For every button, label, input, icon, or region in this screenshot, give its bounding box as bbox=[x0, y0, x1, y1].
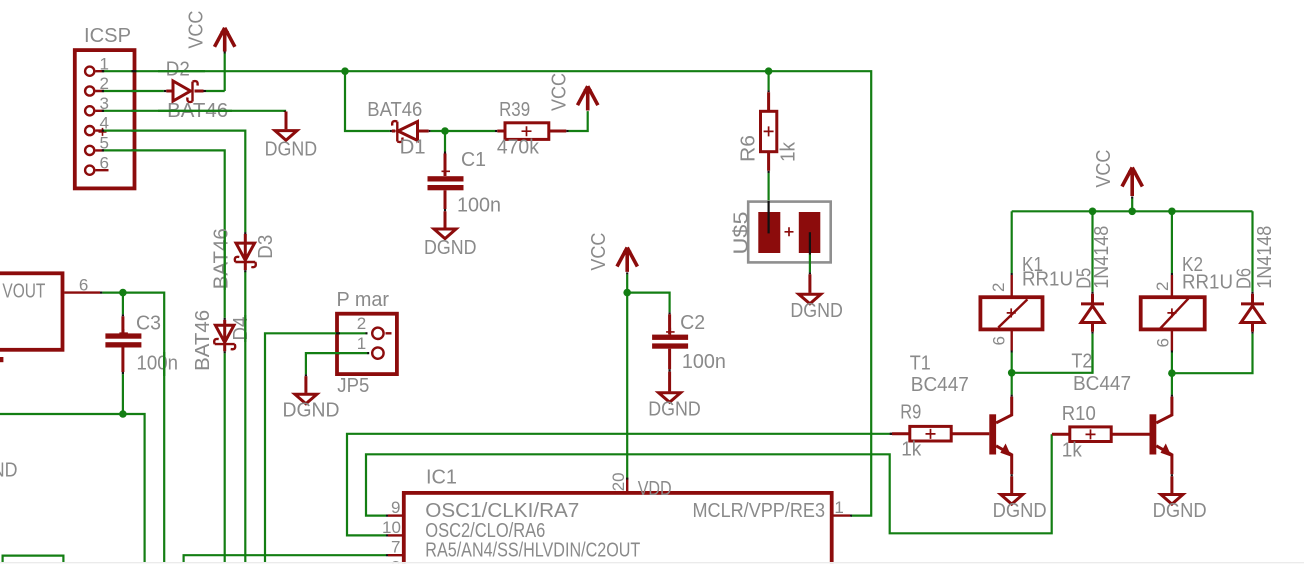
pin tick bbox=[1131, 197, 1133, 199]
power symbol VCC arrow above C2 bbox=[617, 248, 637, 272]
part IC1 box bbox=[404, 493, 832, 565]
wire VCC to D2 cathode bbox=[224, 54, 226, 92]
capacitor C1 bbox=[428, 154, 464, 210]
svg-text:ICSP: ICSP bbox=[84, 25, 131, 47]
wire JP5 pin2 riser bbox=[265, 333, 366, 562]
JP5 pin circle 2 bbox=[372, 328, 383, 339]
svg-text:VDD: VDD bbox=[638, 478, 672, 500]
relay K1 coil bbox=[980, 275, 1042, 351]
pin tick bbox=[390, 130, 392, 132]
JP5 pin circle 1 bbox=[372, 347, 383, 358]
svg-text:BC447: BC447 bbox=[1073, 373, 1131, 395]
svg-text:D4: D4 bbox=[230, 317, 252, 341]
wire pin4 down schematic bbox=[104, 131, 245, 233]
pin tick bbox=[1171, 273, 1173, 275]
svg-text:BAT46: BAT46 bbox=[211, 228, 233, 289]
ground DGND under C1 bbox=[434, 211, 456, 238]
JP5 origin dash bbox=[386, 332, 392, 334]
svg-text:RA5/AN4/SS/HLVDIN/C2OUT: RA5/AN4/SS/HLVDIN/C2OUT bbox=[425, 540, 640, 562]
wire C3 to DGND rail bbox=[0, 374, 145, 562]
svg-text:10: 10 bbox=[382, 518, 401, 537]
pin tick bbox=[386, 434, 1052, 515]
junction D1/C1/R39 bbox=[441, 127, 449, 135]
svg-text:C3: C3 bbox=[136, 312, 161, 334]
svg-text:OSC1/CLKI/RA7: OSC1/CLKI/RA7 bbox=[425, 500, 579, 522]
ICSP pin circle 4 bbox=[85, 126, 94, 135]
resistor R39 bbox=[497, 123, 566, 140]
junction VCC/C2 bbox=[623, 289, 631, 297]
schematic canvas bottom boundary bbox=[0, 562, 1304, 563]
pin tick bbox=[1091, 292, 1093, 334]
svg-text:OSC2/CLO/RA6: OSC2/CLO/RA6 bbox=[425, 520, 545, 542]
svg-text:1N4148: 1N4148 bbox=[1091, 226, 1113, 289]
svg-text:2: 2 bbox=[989, 283, 1008, 292]
pin tick bbox=[767, 90, 769, 92]
pin 6 stub bbox=[64, 291, 100, 293]
svg-text:2: 2 bbox=[357, 314, 366, 333]
part VOUT box bbox=[0, 273, 63, 350]
wire pin9 to R10 run bbox=[366, 434, 1052, 533]
wire pin2 to D2 bbox=[104, 90, 164, 92]
ICSP pin circle 2 bbox=[85, 86, 94, 95]
wire overdraw: C3 rail riser over 100n label bbox=[163, 352, 165, 376]
pin tick bbox=[668, 312, 670, 314]
pin tick bbox=[1251, 292, 1253, 334]
ground DGND symbol bbox=[275, 112, 297, 141]
transistor T2 bbox=[1150, 397, 1172, 475]
wire pin5 down schematic bbox=[104, 150, 225, 318]
pin tick bbox=[566, 130, 568, 132]
resistor R9 bbox=[892, 426, 989, 441]
wire pin1 top bus bbox=[104, 71, 871, 515]
relay K2 coil bbox=[1141, 275, 1205, 351]
junction VCC bbox=[1128, 208, 1136, 216]
ground DGND under U$5 bbox=[799, 274, 821, 304]
pin tick bbox=[1171, 474, 1173, 476]
svg-text:DGND: DGND bbox=[1153, 500, 1207, 522]
svg-text:DGND: DGND bbox=[0, 460, 18, 482]
ICSP pin circle 3 bbox=[85, 106, 94, 115]
part U$5 jumper pads bbox=[748, 201, 831, 262]
resistor R10 bbox=[1052, 427, 1150, 442]
pin tick bbox=[100, 292, 102, 294]
wire overdraw: pin5 riser over BAT46 label bbox=[224, 231, 226, 290]
diode D6 bbox=[1241, 294, 1264, 332]
svg-text:VCC: VCC bbox=[1093, 150, 1115, 188]
pin 20 VDD stub bbox=[626, 478, 628, 493]
svg-text:RR1U: RR1U bbox=[1182, 271, 1233, 293]
pin tick bbox=[890, 433, 892, 435]
ICSP pin circle 5 bbox=[85, 146, 94, 155]
svg-text:P mar: P mar bbox=[337, 289, 390, 311]
svg-text:VCC: VCC bbox=[588, 233, 610, 271]
pin tick bbox=[668, 369, 670, 371]
capacitor C3 bbox=[105, 316, 141, 372]
pin tick bbox=[1171, 351, 1173, 353]
svg-text:BAT46: BAT46 bbox=[192, 310, 214, 371]
pin tick bbox=[224, 52, 226, 54]
junction at R6 branch bbox=[765, 67, 773, 75]
wire pin7 run bbox=[184, 555, 386, 562]
svg-text:20: 20 bbox=[609, 472, 628, 491]
wire D1 to node bbox=[431, 130, 495, 132]
wire bus to K2 bbox=[1171, 211, 1173, 273]
svg-text:6: 6 bbox=[100, 153, 109, 172]
ICSP pin circle 1 bbox=[85, 67, 94, 76]
svg-text:R10: R10 bbox=[1062, 403, 1096, 425]
ground DGND under T1 bbox=[1001, 476, 1023, 504]
pin tick bbox=[444, 209, 446, 211]
diode D2 bbox=[166, 81, 203, 102]
wire R6 to U$5 bbox=[767, 173, 769, 201]
wire overdraw: pin3 wire over BAT46 label bbox=[158, 110, 232, 112]
power symbol VCC arrow at R39 bbox=[578, 86, 598, 110]
diode D4 bbox=[214, 320, 235, 351]
svg-text:DGND: DGND bbox=[283, 399, 340, 421]
svg-text:BAT46: BAT46 bbox=[367, 99, 422, 121]
pin tick bbox=[285, 111, 286, 112]
svg-text:9: 9 bbox=[391, 498, 400, 517]
svg-text:100n: 100n bbox=[457, 195, 501, 217]
ICSP pin circle 6 bbox=[85, 166, 94, 175]
wire overdraw: pin4 riser over D4 label bbox=[244, 315, 246, 342]
svg-text:MCLR/VPP/RE3: MCLR/VPP/RE3 bbox=[693, 500, 826, 522]
pin tick bbox=[244, 270, 246, 272]
junction K2/T2 bbox=[1168, 369, 1176, 377]
wire bus to K1 bbox=[1011, 211, 1013, 273]
diode D5 bbox=[1081, 294, 1104, 332]
pin 1 MCLR stub bbox=[832, 514, 850, 516]
pin tick bbox=[1011, 474, 1013, 476]
svg-text:IC1: IC1 bbox=[426, 467, 457, 489]
black cross ticks on ICSP border bbox=[102, 71, 137, 150]
wire VCC bus bbox=[1012, 199, 1253, 212]
pin tick bbox=[444, 152, 446, 154]
transistor T1 bbox=[989, 397, 1011, 475]
svg-text:VOUT: VOUT bbox=[2, 280, 45, 302]
diode D1 (BAT46) bbox=[392, 121, 429, 142]
pin 7 stub bbox=[388, 554, 404, 556]
pin tick bbox=[809, 272, 811, 274]
wire K2 to T2 collector node bbox=[1172, 334, 1253, 373]
wire pin3 bbox=[104, 110, 286, 112]
junction D5 top bbox=[1089, 208, 1097, 216]
junction K1/T1 bbox=[1008, 369, 1016, 377]
svg-text:6: 6 bbox=[990, 336, 1009, 345]
svg-text:1k: 1k bbox=[778, 141, 800, 162]
svg-text:2: 2 bbox=[1153, 282, 1172, 291]
svg-text:1: 1 bbox=[834, 498, 843, 517]
junction VOUT/C3 bbox=[119, 289, 127, 297]
pin 10 stub bbox=[388, 534, 404, 536]
svg-text:1N4148: 1N4148 bbox=[1254, 226, 1276, 289]
pin tick bbox=[386, 554, 388, 556]
junction at D1 branch bbox=[341, 67, 349, 75]
svg-text:VCC: VCC bbox=[185, 11, 207, 49]
svg-text:R6: R6 bbox=[738, 135, 760, 162]
stray pin mark at left edge bbox=[0, 357, 3, 362]
svg-text:100n: 100n bbox=[682, 351, 726, 373]
pin tick bbox=[1171, 395, 1173, 397]
pin tick bbox=[164, 90, 167, 92]
wire D2 to VCC riser bbox=[206, 90, 225, 92]
svg-text:R39: R39 bbox=[499, 99, 530, 121]
wire node to C3 bbox=[122, 293, 124, 315]
svg-text:7: 7 bbox=[391, 538, 400, 557]
svg-text:VCC: VCC bbox=[549, 73, 571, 111]
svg-text:D1: D1 bbox=[400, 137, 426, 159]
ground DGND under T2 bbox=[1161, 476, 1183, 504]
ground DGND under JP5 bbox=[295, 376, 317, 404]
pin tick bbox=[306, 353, 369, 376]
power symbol VCC arrow bbox=[215, 28, 235, 52]
svg-text:R9: R9 bbox=[900, 402, 921, 424]
wire node to T1 collector bbox=[1011, 373, 1013, 395]
wire node to C1 bbox=[444, 131, 446, 152]
svg-text:470k: 470k bbox=[497, 137, 540, 159]
svg-text:RR1U: RR1U bbox=[1022, 269, 1073, 291]
svg-text:DGND: DGND bbox=[424, 237, 477, 259]
wire top bus to D1 bbox=[345, 71, 390, 131]
pin tick bbox=[1011, 395, 1013, 397]
pin tick bbox=[244, 232, 246, 234]
pin tick bbox=[366, 332, 368, 334]
svg-text:T2: T2 bbox=[1071, 351, 1092, 373]
svg-text:C2: C2 bbox=[680, 312, 705, 334]
diode D3 bbox=[235, 234, 256, 270]
power symbol VCC arrow at relays bbox=[1122, 168, 1142, 197]
svg-text:100n: 100n bbox=[137, 352, 179, 374]
junction K2 top bbox=[1168, 208, 1176, 216]
svg-text:D3: D3 bbox=[255, 235, 277, 259]
pin tick bbox=[1011, 273, 1013, 275]
wire junction to C2 bbox=[627, 293, 669, 313]
wire R39 to VCC bbox=[569, 111, 588, 131]
junction C3/rail bbox=[119, 410, 127, 418]
svg-text:BC447: BC447 bbox=[911, 374, 969, 396]
pin tick bbox=[122, 314, 124, 316]
wire VOUT pin6 to C3 node bbox=[102, 293, 164, 562]
connector ICSP box bbox=[75, 50, 135, 188]
wire pin4 lower segment bbox=[244, 271, 246, 562]
pin tick bbox=[626, 478, 628, 480]
pin tick bbox=[386, 434, 892, 536]
connector JP5 box bbox=[337, 314, 397, 374]
pin tick bbox=[224, 351, 226, 353]
svg-text:1k: 1k bbox=[901, 438, 922, 460]
resistor R6 bbox=[761, 92, 777, 171]
svg-text:6: 6 bbox=[1153, 338, 1172, 347]
wire pin5 lower segment bbox=[224, 353, 226, 562]
pin 9 stub bbox=[388, 514, 404, 516]
pin tick bbox=[224, 318, 226, 320]
black cross ticks on JP5 border bbox=[336, 333, 340, 353]
svg-text:DGND: DGND bbox=[648, 399, 701, 421]
wire overdraw: top bus over label D2 bbox=[158, 70, 205, 72]
pin tick bbox=[122, 372, 124, 374]
svg-text:1k: 1k bbox=[1062, 439, 1083, 461]
capacitor C2 bbox=[652, 314, 688, 369]
svg-text:JP5: JP5 bbox=[337, 375, 369, 397]
svg-text:DGND: DGND bbox=[265, 139, 318, 161]
wire K1 to T1 collector node bbox=[1012, 334, 1093, 373]
wire VCC to junction to VDD bbox=[626, 274, 628, 477]
pin tick bbox=[495, 130, 497, 132]
wire bus to D5 bbox=[1091, 211, 1093, 291]
pin tick bbox=[204, 90, 207, 92]
wire node to T2 collector bbox=[1171, 373, 1173, 394]
pin tick bbox=[767, 171, 769, 173]
wire overdraw: D5 branch over T2 label bbox=[1091, 350, 1093, 373]
svg-text:1: 1 bbox=[357, 334, 366, 353]
wire JP5 pin1 to DGND bbox=[306, 353, 368, 374]
ICSP origin cross bbox=[99, 128, 107, 136]
wire pin10 to R9 run bbox=[347, 434, 890, 536]
pin tick bbox=[429, 130, 431, 132]
svg-text:U$5: U$5 bbox=[730, 212, 752, 255]
svg-text:T1: T1 bbox=[910, 352, 931, 374]
pin tick bbox=[626, 272, 628, 274]
wire bus to R6 bbox=[767, 71, 769, 90]
ICSP pin stubs bbox=[96, 71, 109, 170]
svg-text:C1: C1 bbox=[461, 149, 486, 171]
wire DGND staple bottom left bbox=[3, 556, 64, 562]
pin tick bbox=[850, 514, 852, 516]
pin tick bbox=[1051, 433, 1053, 435]
svg-text:DGND: DGND bbox=[993, 500, 1047, 522]
wire bus to D6 bbox=[1251, 211, 1253, 291]
pin tick bbox=[1011, 351, 1013, 353]
svg-text:DGND: DGND bbox=[790, 300, 843, 322]
svg-text:D2: D2 bbox=[166, 58, 190, 80]
ground DGND under C2 bbox=[659, 372, 681, 403]
wire U$5 to ground bbox=[809, 255, 811, 273]
